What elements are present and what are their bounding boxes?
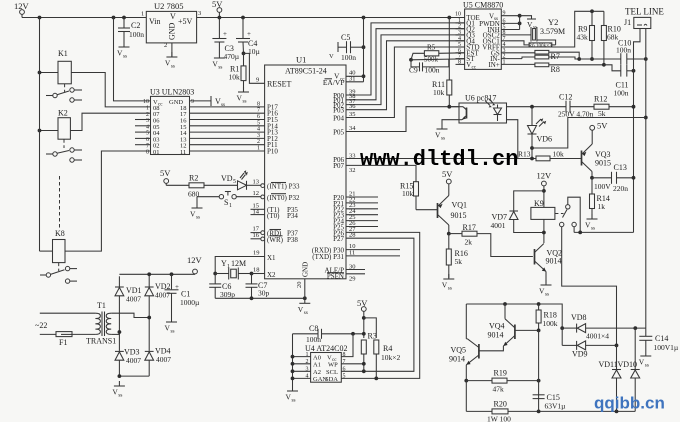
resistor R13 — [536, 156, 550, 161]
svg-text:18: 18 — [253, 267, 260, 274]
svg-text:100n: 100n — [306, 335, 321, 344]
ground Vss U4 — [286, 386, 299, 404]
svg-text:+: + — [223, 30, 227, 38]
junction 5V rail at U1 Vcc riser — [362, 16, 366, 20]
svg-text:33: 33 — [349, 153, 356, 160]
svg-text:P34: P34 — [287, 212, 298, 220]
wire C13 line — [590, 176, 594, 180]
wire left relay rail — [39, 18, 41, 252]
wire ULN outputs 18..11 to U1 P17..P10 — [190, 106, 265, 108]
svg-text:2: 2 — [257, 139, 260, 145]
svg-text:C2: C2 — [131, 21, 140, 30]
svg-text:10k: 10k — [402, 189, 414, 198]
svg-text:GND: GND — [302, 262, 310, 277]
svg-text:U3 ULN2803: U3 ULN2803 — [150, 88, 194, 97]
diode VD7 — [514, 191, 544, 211]
transistor VQ5 9014 — [478, 344, 480, 359]
svg-text:VD: VD — [221, 174, 233, 183]
ground Vss U5 — [520, 16, 532, 19]
wire crystal ground rail — [215, 297, 305, 299]
svg-text:VQ1: VQ1 — [452, 201, 468, 210]
svg-text:10: 10 — [143, 99, 149, 105]
svg-text:(T0): (T0) — [267, 212, 280, 220]
resistor R20 — [465, 381, 467, 412]
svg-text:5V: 5V — [597, 121, 608, 131]
svg-text:10k: 10k — [229, 73, 241, 82]
svg-text:1000µ: 1000µ — [180, 298, 200, 307]
wire T1 T0 stubs — [251, 208, 265, 210]
svg-text:13: 13 — [253, 179, 260, 186]
svg-text:P07: P07 — [333, 162, 344, 170]
svg-text:PSEN: PSEN — [327, 272, 344, 280]
svg-text:R12: R12 — [594, 95, 607, 104]
wire K1 to ULN 08 — [71, 73, 150, 107]
svg-text:5V: 5V — [442, 169, 453, 179]
svg-text:P03: P03 — [333, 107, 344, 115]
LED inside U6 — [497, 105, 499, 109]
svg-text:U1: U1 — [296, 55, 306, 65]
svg-text:qqibb.cn: qqibb.cn — [594, 394, 665, 413]
junction C2 — [122, 16, 126, 20]
resistor R11 — [448, 18, 450, 81]
resistor R7b (IN-) — [501, 58, 522, 60]
svg-text:AT89C51-24: AT89C51-24 — [285, 67, 327, 76]
svg-text:9: 9 — [191, 99, 194, 105]
svg-text:8: 8 — [257, 101, 260, 107]
svg-text:VD10: VD10 — [618, 360, 638, 369]
wire ST line — [411, 58, 465, 61]
wire U1 Vcc riser — [363, 18, 365, 82]
ground Vss S1 — [190, 203, 203, 221]
svg-text:9014: 9014 — [546, 257, 562, 266]
svg-text:9014: 9014 — [449, 355, 465, 364]
wire U5 Vss PWDN INH tie — [501, 15, 519, 17]
svg-text:6: 6 — [257, 114, 260, 120]
ground Vss bridge — [112, 381, 125, 399]
ground Vss R14 — [585, 214, 598, 232]
resistor R9 — [591, 11, 593, 25]
svg-text:100n: 100n — [425, 66, 440, 75]
svg-text:U5 CM8870: U5 CM8870 — [463, 1, 503, 10]
wire J1 right pin column — [645, 29, 647, 329]
svg-text:4001: 4001 — [491, 221, 506, 230]
svg-text:R13: R13 — [518, 150, 531, 159]
junction secondary bottom / VD1 column — [118, 330, 122, 334]
svg-text:VD11: VD11 — [599, 360, 618, 369]
capacitor C1 — [171, 274, 173, 289]
svg-text:6: 6 — [343, 367, 346, 373]
junction C4 — [241, 16, 245, 20]
wire 5V rail — [197, 17, 465, 19]
svg-text:100k: 100k — [543, 319, 558, 328]
svg-text:Y2: Y2 — [548, 17, 558, 27]
svg-text:SCL: SCL — [326, 369, 338, 376]
resistor R8 (IN+) — [501, 63, 535, 65]
svg-text:R19: R19 — [494, 369, 507, 378]
svg-text:TEL LINE: TEL LINE — [625, 7, 664, 17]
svg-text:31: 31 — [349, 76, 356, 83]
svg-text:30p: 30p — [258, 289, 270, 298]
svg-text:P27: P27 — [333, 235, 344, 243]
svg-text:J1: J1 — [624, 18, 631, 27]
svg-text:4001×4: 4001×4 — [586, 332, 609, 341]
svg-text:EA/VP: EA/VP — [323, 78, 345, 87]
wire K8 to ULN 01 — [65, 151, 151, 251]
svg-text:C14: C14 — [655, 334, 668, 343]
svg-text:R7: R7 — [551, 52, 560, 61]
svg-text:5k: 5k — [598, 109, 606, 118]
svg-text:35: 35 — [349, 111, 356, 118]
capacitor C2 — [123, 18, 125, 29]
svg-text:S: S — [224, 198, 228, 207]
capacitor C3 — [218, 18, 220, 39]
wire U6 out bottom to P06 line — [507, 120, 518, 159]
diode VD3 — [115, 350, 124, 352]
svg-text:R6 100k×3: R6 100k×3 — [529, 43, 553, 49]
svg-text:V: V — [329, 53, 334, 60]
svg-text:V: V — [170, 12, 176, 21]
svg-text:VQ5: VQ5 — [451, 346, 467, 355]
wire rail to K8 — [40, 250, 53, 252]
svg-text:WP: WP — [328, 362, 338, 369]
wire ULN input stubs 06..02 — [135, 119, 151, 121]
resistor R19 — [464, 379, 468, 383]
svg-text:+: + — [247, 30, 251, 38]
wire C15 column — [538, 381, 540, 412]
diode VD1 — [118, 276, 120, 287]
junction C5 right — [362, 45, 366, 49]
svg-text:P04: P04 — [333, 114, 344, 122]
wire bridge top rail 12V out — [119, 273, 195, 275]
junction RESET node — [242, 52, 246, 56]
diode VD2 — [148, 274, 150, 287]
wire secondary top to bridge — [111, 313, 149, 317]
svg-text:2: 2 — [458, 24, 461, 30]
switch K2 contacts — [63, 139, 65, 148]
switch K1 contacts — [64, 84, 66, 92]
wire U1 pin31 — [346, 81, 364, 83]
svg-text:5: 5 — [233, 179, 236, 185]
wire 12V terminal to rail — [21, 14, 23, 17]
transistor VQ2 9014 — [534, 249, 536, 265]
svg-text:SDA: SDA — [325, 376, 338, 383]
svg-text:8: 8 — [458, 59, 461, 65]
capacitor C7 — [251, 274, 253, 284]
svg-text:100V1µ: 100V1µ — [654, 343, 679, 352]
svg-text:5V: 5V — [212, 0, 223, 9]
svg-text:A1: A1 — [313, 362, 321, 369]
svg-text:C12: C12 — [559, 93, 572, 102]
svg-text:100n: 100n — [614, 89, 629, 98]
svg-text:A0: A0 — [313, 354, 321, 361]
svg-text:K8: K8 — [55, 229, 65, 238]
svg-text:1: 1 — [141, 11, 144, 18]
wire VQ2 vertical to R18 column — [538, 330, 540, 380]
svg-text:U4 AT24C02: U4 AT24C02 — [305, 344, 347, 353]
svg-text:5: 5 — [257, 120, 260, 126]
svg-text:R2: R2 — [189, 174, 198, 183]
svg-text:VD8: VD8 — [571, 313, 587, 322]
capacitor C5 — [337, 42, 339, 52]
svg-text:3.579M: 3.579M — [540, 27, 565, 36]
capacitor C14 — [645, 328, 647, 336]
svg-text:C9: C9 — [409, 66, 418, 75]
wire K2 to ULN 07 — [70, 113, 150, 130]
svg-text:3: 3 — [198, 10, 201, 17]
svg-text:19: 19 — [253, 250, 260, 257]
wire X2 — [252, 273, 265, 275]
svg-text:10: 10 — [455, 12, 461, 18]
svg-text:A2: A2 — [313, 369, 321, 376]
diode VD6 LED — [531, 107, 533, 126]
svg-text:4007: 4007 — [156, 355, 171, 364]
svg-text:+5V: +5V — [178, 17, 193, 26]
svg-text:C5: C5 — [341, 33, 350, 42]
svg-text:47k: 47k — [493, 385, 505, 394]
svg-text:12V: 12V — [537, 171, 553, 181]
svg-text:VD9: VD9 — [572, 350, 588, 359]
svg-text:U2 7805: U2 7805 — [154, 1, 184, 11]
ground Vss VQ2 — [539, 280, 552, 298]
svg-text:K2: K2 — [58, 109, 68, 118]
svg-text:R17: R17 — [463, 223, 476, 232]
svg-text:VD6: VD6 — [537, 135, 553, 144]
resistor R16 — [448, 234, 450, 249]
svg-text:T1: T1 — [97, 301, 106, 310]
svg-text:9014: 9014 — [488, 331, 504, 340]
diode VD8 — [560, 326, 564, 330]
svg-text:3: 3 — [257, 133, 260, 139]
svg-text:100V: 100V — [594, 182, 611, 191]
capacitor C10 — [620, 53, 622, 65]
svg-text:(TXD) P31: (TXD) P31 — [312, 253, 344, 261]
svg-text:(INT1) P33: (INT1) P33 — [267, 183, 300, 191]
svg-text:470µ: 470µ — [224, 52, 240, 61]
svg-text:63V1µ: 63V1µ — [545, 402, 567, 411]
svg-text:4007: 4007 — [126, 356, 141, 365]
svg-text:2k: 2k — [465, 238, 473, 247]
svg-text:~22: ~22 — [35, 321, 47, 330]
svg-text:GND: GND — [168, 22, 177, 40]
ground Vss U1 — [298, 298, 311, 316]
svg-text:R20: R20 — [494, 400, 507, 409]
ground Vss U2 — [165, 52, 178, 70]
wire R2 to VD5 — [204, 184, 238, 186]
ground Vss R1 — [237, 87, 250, 105]
wire U2 GND pin to ground — [171, 43, 173, 57]
transistor VQ3 9015 — [581, 151, 583, 166]
svg-text:C8: C8 — [309, 324, 318, 333]
svg-text:cc: cc — [472, 65, 477, 71]
junction R3 to SCL line — [362, 369, 366, 373]
transistor VQ1 9015 — [416, 209, 438, 211]
svg-text:9015: 9015 — [451, 211, 467, 220]
svg-text:29: 29 — [349, 276, 356, 283]
svg-text:VQ4: VQ4 — [489, 322, 505, 331]
wire C10 line — [577, 57, 581, 61]
capacitor C11 — [620, 65, 622, 77]
svg-text:30: 30 — [349, 264, 356, 271]
resistor R1 — [243, 53, 245, 66]
svg-text:4007: 4007 — [126, 295, 141, 304]
svg-text:14: 14 — [253, 208, 260, 215]
capacitor C6 — [214, 274, 216, 284]
svg-text:32: 32 — [349, 167, 356, 174]
svg-text:10k: 10k — [553, 150, 565, 159]
resistor R4 — [364, 318, 377, 338]
resistor R2 — [166, 184, 189, 186]
resistor R6 100k x3 — [501, 41, 529, 45]
switch K9 contacts — [555, 213, 564, 215]
svg-text:5: 5 — [343, 374, 346, 380]
capacitor C4 — [242, 18, 244, 39]
svg-text:12M: 12M — [231, 259, 246, 268]
svg-text:12: 12 — [253, 190, 260, 197]
wire U4 address pins to ground rail — [293, 356, 311, 358]
resistor R5 500k — [409, 58, 413, 62]
capacitor C9 — [411, 60, 420, 67]
capacitor C12 — [565, 101, 567, 113]
svg-text:X1: X1 — [267, 254, 276, 262]
svg-text:68k: 68k — [607, 33, 619, 42]
wire secondary bottom to bridge — [111, 333, 119, 335]
svg-text:100n: 100n — [616, 46, 631, 55]
svg-text:43k: 43k — [577, 33, 589, 42]
svg-text:9: 9 — [256, 77, 259, 84]
wire ULN Vcc to 12V rail — [114, 18, 151, 101]
svg-text:100n: 100n — [129, 30, 144, 39]
svg-text:2: 2 — [164, 42, 167, 49]
capacitor C15 — [533, 394, 545, 396]
wire rail to K1 — [40, 72, 59, 74]
svg-text:5V: 5V — [160, 168, 171, 178]
wire U6 out top to C12 — [507, 106, 567, 108]
svg-text:K1: K1 — [58, 49, 68, 58]
resistor R14 — [591, 178, 593, 194]
wire U1 pin40 — [346, 75, 364, 77]
wire U6 pin2 to Vss — [442, 120, 459, 124]
svg-text:5k: 5k — [455, 257, 463, 266]
wire VQ4 block top line — [466, 304, 562, 328]
svg-text:9015: 9015 — [595, 159, 611, 168]
ground Vss C2 — [117, 42, 130, 60]
ground Vss C14 — [639, 351, 652, 369]
svg-text:7: 7 — [257, 108, 260, 114]
svg-text:20: 20 — [296, 282, 303, 289]
resistor R17 — [449, 233, 462, 235]
resistor R12 — [570, 106, 594, 108]
wire rail to K2 — [40, 130, 59, 132]
svg-text:1W 100: 1W 100 — [487, 415, 511, 422]
wire bridge bottom rail — [119, 375, 149, 377]
wire RESET node to U1 pin9 — [244, 53, 265, 83]
svg-text:(INT0) P32: (INT0) P32 — [267, 194, 300, 202]
ground Vss R16 — [442, 274, 455, 292]
wire J1 left pin column — [634, 29, 641, 233]
svg-text:11: 11 — [349, 249, 355, 256]
wire 12V rail — [22, 17, 146, 19]
resistor R7 (GS) — [501, 52, 535, 54]
junction 5V rail at R11 — [447, 16, 451, 20]
ground Vss C1 — [165, 317, 178, 335]
junction ULN Vcc riser — [112, 16, 116, 20]
wire VREF to R9 R10 top — [501, 11, 604, 47]
svg-text:10k×2: 10k×2 — [381, 353, 400, 362]
wire U5 left stubs — [456, 22, 465, 24]
wire U4 Vcc to C8 node — [341, 334, 353, 357]
svg-text:36: 36 — [349, 103, 356, 110]
svg-text:4: 4 — [257, 127, 260, 133]
diode VD4 — [145, 350, 154, 352]
svg-text:100n: 100n — [341, 53, 356, 62]
resistor R15 — [414, 182, 419, 196]
svg-text:F1: F1 — [59, 338, 67, 347]
wire U4 WP to R3 column — [341, 363, 364, 365]
wire RD WR stubs — [261, 231, 265, 235]
svg-text:1k: 1k — [598, 202, 606, 211]
svg-text:K9: K9 — [534, 199, 544, 208]
svg-text:P38: P38 — [287, 236, 298, 244]
svg-text:(WR): (WR) — [267, 236, 284, 244]
svg-text:220n: 220n — [613, 184, 628, 193]
svg-text:1: 1 — [229, 203, 232, 209]
svg-text:TRANS1: TRANS1 — [86, 337, 116, 346]
svg-text:12V: 12V — [187, 255, 203, 265]
wire R17 to VQ2 base — [477, 234, 533, 257]
svg-text:P10: P10 — [267, 148, 278, 156]
svg-text:C13: C13 — [614, 163, 627, 172]
svg-text:www.dltdl.cn: www.dltdl.cn — [360, 147, 518, 172]
svg-text:R5: R5 — [427, 44, 436, 52]
svg-text:10k: 10k — [433, 88, 445, 97]
switch S1 — [261, 195, 265, 199]
ground Vss C3 — [212, 53, 225, 71]
wire dashed relay chain K3..K7 — [59, 176, 61, 228]
svg-text:IN+: IN+ — [488, 61, 499, 69]
wire K9 switch to VD8 node — [562, 227, 617, 346]
svg-text:P05: P05 — [333, 128, 344, 136]
svg-text:R3: R3 — [368, 332, 377, 341]
svg-text:309p: 309p — [220, 290, 235, 299]
wire VD5 to U1 P33 — [247, 184, 261, 186]
diode VD9 — [561, 328, 563, 345]
wire VD6 node to C12 return line — [532, 118, 646, 149]
ground Vss U6 — [435, 124, 448, 142]
capacitor C13 — [611, 172, 613, 184]
resistor R18 — [538, 304, 540, 310]
junction VQ1 collector — [447, 232, 451, 236]
svg-text:1: 1 — [257, 146, 260, 152]
svg-text:16: 16 — [253, 232, 260, 239]
wire ULN GND to Vss — [190, 100, 212, 102]
transistor VQ4 9014 — [514, 325, 516, 340]
svg-text:4007: 4007 — [155, 291, 170, 300]
svg-text:4: 4 — [458, 36, 461, 42]
junction R4 to SDA line — [374, 377, 378, 381]
switch K8 contacts — [58, 263, 60, 271]
svg-text:Vin: Vin — [149, 17, 161, 26]
svg-text:01: 01 — [153, 149, 160, 156]
svg-text:250V 4.70n: 250V 4.70n — [558, 110, 594, 119]
svg-text:RESET: RESET — [267, 80, 292, 89]
svg-text:34: 34 — [349, 125, 356, 132]
svg-text:X2: X2 — [267, 271, 276, 279]
junction relay rail — [38, 16, 42, 20]
svg-text:11: 11 — [180, 149, 186, 156]
resistor R3 — [361, 340, 366, 354]
diode VD5 LED — [238, 181, 247, 190]
svg-text:R4: R4 — [383, 344, 392, 353]
